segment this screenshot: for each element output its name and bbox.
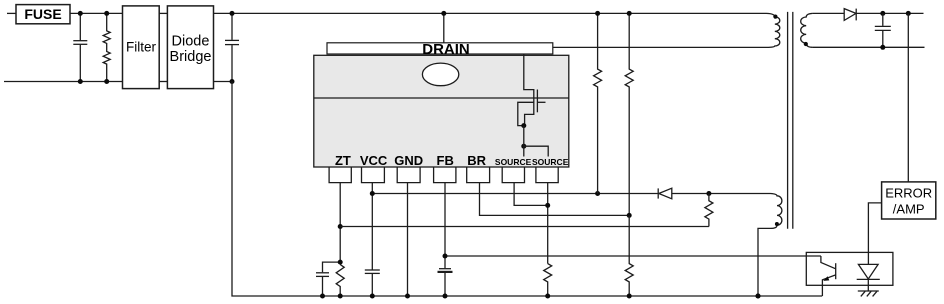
svg-text:Filter: Filter — [126, 40, 157, 55]
junction: MOSFET source nodes — [521, 123, 526, 149]
wire: secondary return — [813, 46, 925, 48]
wire: VCC supply line left — [372, 193, 657, 195]
wire: BR pin lead — [480, 183, 630, 216]
wire: drain tab to transformer primary — [553, 46, 767, 48]
capacitor: output filter — [875, 13, 891, 47]
wire: SOURCE1 pin lead — [514, 183, 548, 206]
svg-text:/AMP: /AMP — [893, 202, 925, 217]
svg-text:Bridge: Bridge — [170, 49, 212, 65]
wire: filter to bridge top — [159, 12, 167, 14]
capacitor: VCC bypass — [365, 270, 380, 296]
capacitor: FB cap — [438, 269, 453, 296]
pin BR — [467, 153, 490, 183]
resistor: BR divider lower — [625, 215, 633, 296]
wire: VCC supply line right — [672, 193, 771, 195]
junction: output nodes top — [880, 11, 911, 16]
ground — [858, 291, 879, 296]
wire: FB pin lead — [444, 183, 446, 269]
svg-text:DRAIN: DRAIN — [422, 41, 470, 58]
wire: primary side ground rail — [232, 82, 822, 297]
junction: bulk cap nodes — [230, 11, 235, 84]
block: ERROR/AMP — [882, 182, 936, 219]
resistor: current sense — [544, 264, 552, 296]
junction: BR node — [627, 213, 632, 218]
svg-text:ZT: ZT — [335, 153, 351, 168]
junction: aux rectifier nodes — [595, 191, 711, 196]
IC internal divider — [314, 97, 569, 99]
svg-text:FUSE: FUSE — [24, 6, 61, 22]
transformer core — [788, 12, 793, 229]
diode: VCC rectifier — [658, 188, 672, 199]
wire: filter to bridge bottom — [159, 81, 167, 83]
block: Filter — [123, 6, 160, 89]
transformer secondary winding — [801, 13, 813, 47]
junction: startup resistor top — [595, 11, 600, 16]
wire: ZT sense line — [340, 226, 709, 228]
wire: secondary top to diode — [813, 12, 845, 14]
wire: DC bus top rail — [214, 12, 767, 14]
wire: aux winding return — [758, 228, 771, 296]
wire: FB to optocoupler — [445, 255, 821, 257]
resistor: startup resistor from DC bus — [594, 13, 602, 193]
resistor: BR divider upper — [625, 13, 633, 215]
IC body U1 — [314, 55, 569, 167]
svg-text:ERROR: ERROR — [885, 186, 932, 201]
fuse F1 — [16, 5, 70, 24]
wire: MOSFET source to SOURCE pins — [524, 126, 548, 157]
resistor: aux-to-ZT resistor — [705, 194, 713, 227]
junction: ground rail nodes — [320, 294, 761, 299]
DRAIN tab — [327, 41, 553, 58]
wire: bridge output bottom — [214, 81, 233, 83]
pin SOURCE 1 — [495, 157, 532, 183]
svg-text:GND: GND — [394, 153, 423, 168]
junction: VCC line node — [370, 191, 375, 196]
pin ZT — [329, 153, 351, 183]
wire: SOURCE2 pin lead — [547, 183, 549, 264]
resistor: discharge resistor across AC line — [103, 13, 110, 81]
svg-text:SOURCE: SOURCE — [532, 157, 569, 167]
svg-text:SOURCE: SOURCE — [495, 157, 532, 167]
wire: AC input line bottom — [4, 81, 123, 83]
junction: aux return to ground rail — [756, 294, 761, 299]
wire: output sense to error amp — [907, 13, 909, 182]
pin GND — [394, 153, 423, 183]
junction: output cap bottom — [880, 45, 885, 50]
transformer primary winding — [767, 13, 780, 47]
wire: ZT pin lead — [339, 183, 341, 265]
optocoupler box — [806, 252, 893, 285]
IC mounting hole — [422, 63, 458, 86]
optocoupler phototransistor — [821, 256, 836, 296]
wire: VCC pin lead — [371, 183, 373, 270]
wire: diode to output — [856, 12, 923, 14]
wire: error amp output to LED — [868, 203, 881, 265]
svg-text:FB: FB — [437, 153, 454, 168]
optocoupler LED — [857, 264, 880, 291]
junction: ZT RC nodes — [338, 224, 343, 265]
diode: output rectifier — [844, 9, 856, 21]
junction: X-cap nodes — [78, 11, 83, 84]
svg-text:BR: BR — [467, 153, 486, 168]
capacitor: bulk electrolytic — [225, 13, 239, 81]
pin VCC — [360, 153, 388, 183]
junction: discharge resistor nodes — [104, 11, 109, 84]
pin FB — [434, 153, 456, 183]
junction: BR divider top — [627, 11, 632, 16]
capacitor: ZT filter cap — [316, 262, 340, 296]
svg-text:Diode: Diode — [172, 34, 210, 50]
pin SOURCE 2 — [532, 157, 569, 183]
transformer auxiliary winding — [771, 194, 782, 229]
transistor: internal power MOSFET — [518, 54, 546, 126]
block: Diode Bridge — [167, 6, 213, 89]
capacitor: X-cap across AC line — [73, 13, 87, 81]
wire: fuse to filter top — [70, 12, 123, 14]
resistor: ZT timing resistor — [336, 265, 344, 297]
wire: drain riser from DC bus — [441, 11, 446, 43]
junction: FB node — [443, 254, 448, 259]
svg-text:VCC: VCC — [360, 153, 388, 168]
junction: source sense node — [545, 203, 550, 208]
wire: GND pin lead — [407, 183, 409, 296]
wire: AC input line top — [7, 12, 16, 14]
